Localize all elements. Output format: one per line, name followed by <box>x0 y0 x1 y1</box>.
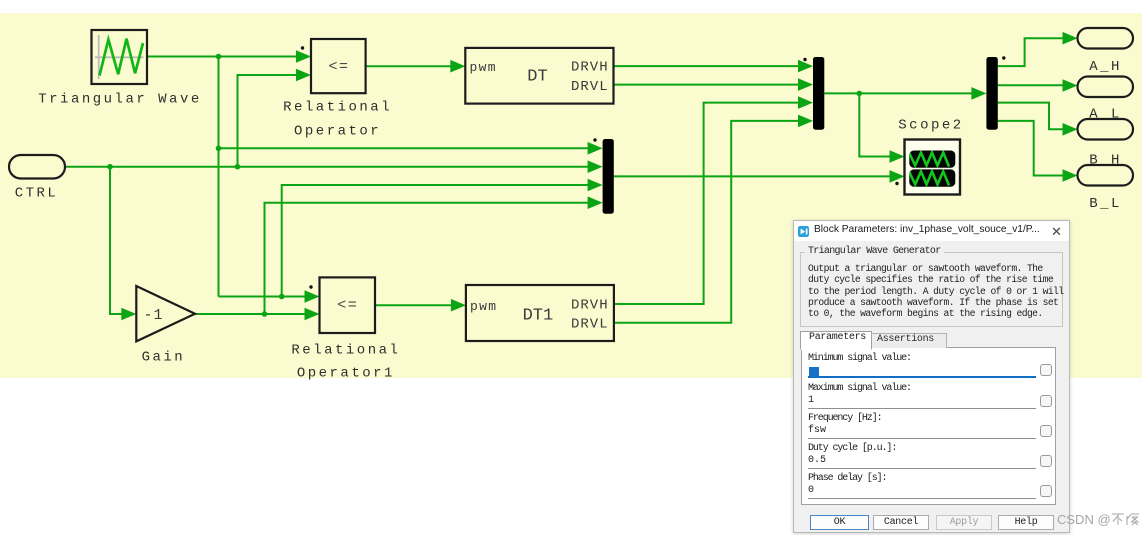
tab Parameters (active) <box>800 331 872 350</box>
op-amp relational operator1 block <box>320 277 376 333</box>
wire: branch to Mux2 in1 <box>219 147 590 149</box>
svg-text:pwm: pwm <box>470 60 497 75</box>
junction node on CTRL line x=237.5 <box>235 164 241 170</box>
wire: Demux out1 to A_H <box>998 38 1064 66</box>
junction node on triangle wave at x=218.5 y=56.5 <box>216 54 222 60</box>
title bar <box>794 221 1069 241</box>
op-amp relational operator block <box>311 39 366 93</box>
wire: branch up to Mux2 in4 <box>265 203 590 314</box>
subsystem DT <box>465 48 613 104</box>
wire: Demux out3 to B_H <box>998 103 1064 130</box>
wire: triangle wave to Relational Operator1 in1 <box>219 296 307 298</box>
svg-text:Gain: Gain <box>142 350 186 366</box>
wire: Relational Operator in2 drop from CTRL <box>238 75 298 167</box>
wire: Demux out2 to A_L <box>998 84 1064 86</box>
svg-text:DRVL: DRVL <box>571 317 609 333</box>
arrowhead into Gain <box>121 308 136 321</box>
svg-text:Relational: Relational <box>283 100 392 116</box>
svg-text:DT1: DT1 <box>523 307 554 326</box>
svg-text:Relational: Relational <box>291 343 400 359</box>
arrowhead into Mux1 in3 <box>798 96 813 109</box>
button Apply <box>936 515 992 530</box>
mux M1 (top) <box>813 57 824 130</box>
arrowhead into Mux1 in4 <box>798 115 813 128</box>
junction node on RelOp1 in1 line x=281.7 <box>279 294 285 300</box>
tab Assertions (inactive) <box>871 333 947 348</box>
svg-text:DRVH: DRVH <box>571 60 609 76</box>
canvas background <box>0 13 1142 378</box>
svg-text:DRVL: DRVL <box>571 79 609 95</box>
wire: triangular wave output to Relational Operator in1 <box>147 56 297 58</box>
arrowhead into Relational Operator in2 <box>296 69 311 82</box>
wire: DT1 DRVL to Mux1 in4 <box>614 121 799 323</box>
arrowhead into DT1 <box>451 299 466 312</box>
button Help <box>998 515 1054 530</box>
junction node on CTRL line x=110 <box>107 164 113 170</box>
port A_H output oval <box>1078 28 1134 49</box>
arrowhead into Scope2 in1 <box>890 150 905 163</box>
simulink icon <box>798 226 809 237</box>
Triangular Wave source block <box>92 30 148 84</box>
svg-text:Triangular Wave: Triangular Wave <box>38 92 202 108</box>
wire: DT1 DRVH to Mux1 in3 <box>614 103 799 304</box>
watermark CSDN <box>1057 512 1141 527</box>
wire: vertical branch of triangle wave x=218.5 <box>218 57 220 297</box>
arrowhead into Mux1 in1 <box>798 60 813 73</box>
wire: CTRL down to Gain input <box>110 167 123 314</box>
arrowhead into Mux2 in4 <box>588 196 603 209</box>
arrowhead into Demux <box>971 87 986 100</box>
port B_H output oval <box>1078 119 1134 140</box>
sample-time dot above Mux2 <box>593 138 596 141</box>
sample-time dot above Mux1 <box>803 58 806 61</box>
svg-text:CTRL: CTRL <box>15 186 59 202</box>
wire: Relational Operator1 output to DT1 <box>375 304 452 306</box>
sample-time dot above Demux <box>1002 56 1005 59</box>
svg-text:DT: DT <box>527 68 547 87</box>
arrowhead into Relational Operator1 in2 <box>305 308 320 321</box>
arrowhead into A_H <box>1063 32 1078 45</box>
arrowhead into Mux2 in3 <box>588 179 603 192</box>
group box: Triangular Wave Generator <box>800 252 1063 327</box>
field: Phase delay <box>808 473 886 484</box>
svg-text:A_H: A_H <box>1089 59 1122 75</box>
subsystem DT1 <box>466 285 614 341</box>
junction node branch to mux2 in1 <box>216 146 222 152</box>
arrowhead into Relational Operator in1 <box>296 50 311 63</box>
svg-text:DRVH: DRVH <box>571 298 609 314</box>
arrowhead into Scope2 in2 <box>890 170 905 183</box>
field: Frequency <box>808 413 882 424</box>
svg-text:Operator: Operator <box>294 124 381 140</box>
wire: Gain output to Relational Operator1 in2 <box>195 313 306 315</box>
arrowhead into Relational Operator1 in1 <box>305 290 320 303</box>
description text <box>808 263 1064 319</box>
arrowhead into B_H <box>1063 123 1078 136</box>
arrowhead into DT <box>450 60 465 73</box>
scope2 block <box>905 140 961 195</box>
button OK <box>810 515 869 530</box>
field: Duty cycle <box>808 443 896 454</box>
junction node on mux1 output x=859.3 <box>857 91 863 97</box>
port CTRL input oval <box>9 155 65 179</box>
wire: Mux2 output to Scope2 in2 <box>614 175 891 177</box>
field: Maximum signal value <box>808 383 911 394</box>
Block Parameters dialog <box>793 220 1070 533</box>
svg-text:Operator1: Operator1 <box>297 366 395 382</box>
wire: DT DRVH to Mux1 in1 <box>614 65 800 67</box>
svg-text:B_L: B_L <box>1089 196 1122 212</box>
wire: branch up to Mux2 in3 <box>282 185 589 297</box>
demux D1 <box>986 57 997 130</box>
gain block <box>136 286 195 341</box>
wire: Mux1 output to Demux <box>824 92 972 94</box>
arrowhead into Mux2 in2 <box>588 160 603 173</box>
sample-time dot above Relational Operator <box>301 46 304 49</box>
svg-text:<=: <= <box>328 59 349 76</box>
field: Minimum signal value <box>808 353 911 364</box>
port A_L output oval <box>1078 77 1134 98</box>
svg-text:pwm: pwm <box>470 299 497 314</box>
junction node on gain output x=264.5 <box>262 311 268 317</box>
wire: DT DRVL to Mux1 in2 <box>614 84 800 86</box>
wire: Relational Operator output to DT <box>366 65 452 67</box>
svg-text:<=: <= <box>337 297 358 314</box>
arrowhead into Mux1 in2 <box>798 78 813 91</box>
wire: branch down to Scope2 in1 <box>859 93 891 156</box>
wire: CTRL output to Mux2 in2 <box>65 166 589 168</box>
arrowhead into Mux2 in1 <box>588 142 603 155</box>
port B_L output oval <box>1078 165 1134 186</box>
mux M2 (middle) <box>603 139 614 214</box>
arrowhead into B_L <box>1063 169 1078 182</box>
sample-time dot at scope bottom-left <box>895 182 898 185</box>
svg-text:Scope2: Scope2 <box>898 118 963 134</box>
tab panel <box>801 347 1056 505</box>
sample-time dot above Relational Operator1 <box>309 285 312 288</box>
wire: Demux out4 to B_L <box>998 121 1064 176</box>
arrowhead into A_L <box>1063 79 1078 92</box>
button Cancel <box>873 515 929 530</box>
svg-text:-1: -1 <box>143 307 163 324</box>
